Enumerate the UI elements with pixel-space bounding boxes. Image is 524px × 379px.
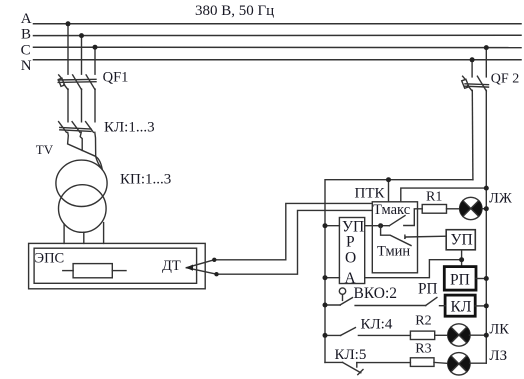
- contactor KL box: [445, 295, 475, 316]
- EPS outer box: [29, 243, 206, 288]
- breaker QF1 pole 3 blade: [86, 75, 95, 90]
- wire PTK top feed: [325, 180, 473, 363]
- transformer TV primary winding: [56, 160, 107, 206]
- wire Tmin to UP relay: [405, 236, 446, 238]
- Tmax fixed contact path to R1: [404, 209, 422, 226]
- wire lamp LK to rail: [470, 334, 487, 336]
- svg-text:R2: R2: [415, 314, 431, 329]
- contactor KL:1...3 pole 3 blade: [86, 122, 94, 133]
- wire DT upper to PTK: [214, 203, 372, 259]
- wire QF2 C pole down (right rail): [485, 90, 487, 363]
- breaker QF2 pole N wire: [471, 60, 473, 77]
- wire tap phase C: [94, 47, 96, 74]
- node phase A tap: [66, 21, 71, 26]
- Tmin fixed hook: [404, 235, 406, 238]
- wire QF2 N pole down: [471, 90, 474, 179]
- svg-text:Р: Р: [346, 234, 355, 251]
- svg-text:C: C: [21, 43, 31, 59]
- svg-text:ДТ: ДТ: [162, 258, 181, 274]
- thermal contact common wire: [365, 225, 390, 227]
- svg-text:QF1: QF1: [103, 70, 129, 86]
- wire QF1 to KL pole 1: [67, 89, 69, 122]
- wire QF1 to KL pole 3: [94, 89, 96, 122]
- contactor KL:1...3 linkage bar: [60, 127, 91, 129]
- wire tap phase A: [67, 24, 69, 74]
- transformer TV secondary winding: [59, 185, 107, 233]
- svg-text:ЛЖ: ЛЖ: [489, 191, 512, 207]
- bus B: [34, 34, 522, 36]
- resistor R3: [410, 358, 434, 367]
- UPROA block box: [339, 218, 364, 284]
- wire DT lower to PTK: [217, 210, 373, 274]
- svg-text:ПТК: ПТК: [355, 186, 386, 202]
- wire RP to rail: [476, 278, 486, 280]
- svg-text:КП:1...3: КП:1...3: [120, 172, 171, 188]
- svg-text:A: A: [21, 11, 32, 27]
- lamp LZh: [460, 197, 482, 219]
- relay RP box: [444, 267, 476, 291]
- relay UP box: [446, 230, 475, 250]
- svg-text:Тмин: Тмин: [377, 244, 410, 260]
- lamp LK: [448, 324, 470, 346]
- contact KL:4: [325, 334, 341, 336]
- sensor DT arrow and nodes: [186, 265, 193, 271]
- wire KL to rail: [475, 305, 486, 307]
- breaker QF2 pole C wire: [485, 48, 487, 77]
- wire transformer to EPS right: [103, 223, 105, 244]
- node QF2 on C bus: [484, 45, 489, 50]
- wire QF1 to KL pole 2: [81, 89, 83, 122]
- svg-text:B: B: [21, 26, 31, 42]
- svg-text:R1: R1: [426, 189, 442, 204]
- contact RP blade: [426, 298, 437, 306]
- breaker QF2 linkage bar: [465, 83, 489, 86]
- sensor DT output wire upper: [186, 260, 214, 268]
- node on PTK feed line: [386, 177, 391, 182]
- svg-text:TV: TV: [36, 142, 54, 157]
- PTK block box: [372, 202, 417, 273]
- svg-text:R3: R3: [415, 341, 431, 356]
- thermal contact blade Tmax: [389, 216, 405, 226]
- wire node to Tmax box top: [388, 180, 390, 202]
- breaker QF2 pole N blade with latch rectangle: [463, 76, 466, 79]
- svg-text:380 В, 50 Гц: 380 В, 50 Гц: [195, 3, 274, 19]
- svg-text:О: О: [345, 249, 356, 266]
- svg-text:КЛ:1...3: КЛ:1...3: [104, 120, 155, 136]
- breaker QF2 pole C blade: [477, 76, 486, 91]
- wire lamp LZ to rail: [470, 362, 486, 364]
- resistor inside EPS: [73, 264, 112, 278]
- bus A: [34, 23, 522, 25]
- UP relay vertical link: [461, 250, 463, 267]
- svg-text:РП: РП: [450, 272, 470, 289]
- svg-text:Тмакс: Тмакс: [373, 202, 410, 218]
- wire transformer to EPS middle: [83, 232, 85, 243]
- bus N: [34, 59, 522, 61]
- breaker QF1 pole 2 blade: [73, 75, 82, 90]
- sensor DT output wire lower: [186, 268, 216, 275]
- wire KL to transformer pole 3: [95, 132, 102, 169]
- svg-text:УП: УП: [451, 232, 473, 249]
- node phase B tap: [79, 33, 84, 38]
- EPS inner box: [34, 248, 197, 283]
- breaker QF1 linkage bar: [58, 78, 96, 81]
- wire KL to transformer pole 2: [80, 132, 82, 150]
- wire VKO:2 to RP contact: [355, 305, 426, 307]
- svg-text:ВКО:2: ВКО:2: [354, 285, 398, 302]
- svg-text:КЛ: КЛ: [451, 299, 472, 316]
- wire rail to Tmax box top second: [401, 188, 487, 202]
- bus C: [34, 46, 522, 48]
- node on right rail at 188: [484, 186, 489, 191]
- wire lamp LZh to rail: [482, 208, 486, 210]
- svg-text:ЭПС: ЭПС: [35, 250, 65, 266]
- node QF2 on N bus: [470, 57, 475, 62]
- wire tap phase B: [81, 36, 83, 75]
- wire KL to transformer pole 1: [68, 132, 103, 169]
- Tmin contact path: [381, 226, 411, 246]
- svg-text:ЛК: ЛК: [489, 322, 509, 338]
- svg-text:КЛ:5: КЛ:5: [335, 347, 367, 363]
- contactor KL:1...3 pole 2 blade: [72, 122, 80, 133]
- wire rail to UPROA: [325, 225, 339, 227]
- limit switch VKO:2 contact: [325, 304, 340, 306]
- resistor R2: [410, 331, 434, 339]
- svg-text:РП: РП: [418, 280, 438, 297]
- svg-text:КЛ:4: КЛ:4: [361, 317, 393, 333]
- lamp LZ: [448, 353, 470, 375]
- resistor R1: [422, 205, 446, 214]
- breaker QF1 pole 1 blade with latch rectangle: [59, 75, 62, 78]
- node phase C tap: [93, 45, 98, 50]
- contact KL:5 (NC): [325, 361, 343, 363]
- svg-text:N: N: [21, 58, 32, 74]
- thermal contact pivot node: [378, 223, 383, 228]
- svg-text:ЛЗ: ЛЗ: [489, 348, 507, 364]
- contactor KL:1...3 pole 1 blade: [59, 122, 67, 133]
- svg-text:QF 2: QF 2: [491, 72, 519, 87]
- wire rail to UP/RP junction: [325, 277, 339, 279]
- wire transformer to EPS left: [63, 224, 65, 243]
